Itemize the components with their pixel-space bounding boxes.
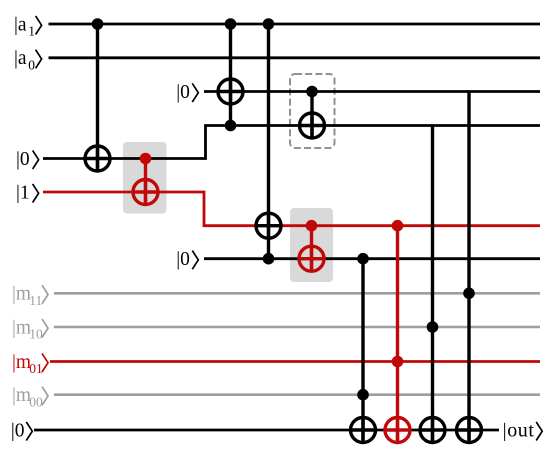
target q4 x97 [85,146,110,171]
wire a1 [49,23,541,26]
svg-text:|0: |0 [11,420,25,441]
target out x363 [351,418,376,443]
gate line toffoli q4,m10->out [431,126,434,443]
red control dot q5 x311 [306,220,318,232]
wire m10 [54,326,540,329]
wire q5 |1> red stepped [43,192,540,226]
red control dot q4 x145 [140,153,152,165]
gate line toffoli a1,q6->q5 [267,24,270,259]
control dot m10 x432 [427,321,439,333]
target q3 x230 [218,79,243,104]
svg-text:|a: |a [14,48,27,69]
control dot a1 x97 [92,18,104,30]
control dot m00 x363 [357,389,369,401]
svg-text:10: 10 [29,327,43,342]
red control dot q5 x397 [392,220,404,232]
svg-text:|a: |a [14,14,27,35]
svg-text:|0: |0 [16,149,30,170]
target q5 x268 [256,213,281,238]
red target q5 x145 [133,180,158,205]
control dot a1 x268 [263,18,275,30]
control dot q4-upper x230 [225,120,237,132]
highlight box around red CNOT gate 2 [290,208,333,282]
target out x469 [457,418,482,443]
svg-text:01: 01 [29,361,43,376]
dashed box around CNOT gate U3 [290,74,335,148]
red target out x397 [385,418,410,443]
gate line red CNOT q4->q5 [144,159,147,205]
svg-text:|0: |0 [176,249,190,270]
target out x432 [420,418,445,443]
gate line toffoli q3,m11->out [467,92,470,443]
svg-text:|1: |1 [16,182,30,203]
svg-text:|m: |m [12,352,31,373]
wire m00 [54,393,540,396]
highlight box around red CNOT gate 1 [123,142,167,214]
wire m11 [54,292,540,295]
control dot q6 x268 [263,253,275,265]
control dot q3 x312 [306,86,318,98]
svg-text:|0: |0 [176,82,190,103]
wire q3 |0> [204,90,540,93]
red target q6 x311 [299,246,324,271]
wire q4 |0> stepped [43,126,540,159]
control dot a1 x230 [225,18,237,30]
svg-text:11: 11 [29,293,42,308]
control dot q6 x363 [357,253,369,265]
gate line toffoli q6,m00->out [361,259,364,443]
wire q6 |0> [204,257,540,260]
svg-text:1: 1 [28,24,35,39]
svg-text:00: 00 [29,394,43,409]
target q4-upper x312 [300,113,325,138]
gate line red toffoli q5,m01->out [396,226,399,443]
gate line CNOT a1->q4 [96,24,99,171]
wire out |0> [34,429,499,432]
svg-text:|m: |m [12,317,31,338]
gate line CNOT q3->q4 dashed box [310,92,313,139]
svg-text:|out: |out [503,419,535,441]
svg-text:0: 0 [28,57,35,72]
red control dot m01 x397 [392,356,404,368]
gate line red CNOT q5->q6 [310,226,313,272]
wire m01 red [50,360,540,363]
svg-text:|m: |m [12,385,31,406]
control dot m11 x469 [463,288,475,300]
svg-text:|m: |m [12,284,31,305]
wire a0 [49,56,541,59]
gate line toffoli a1,q4->q3 [229,24,232,126]
